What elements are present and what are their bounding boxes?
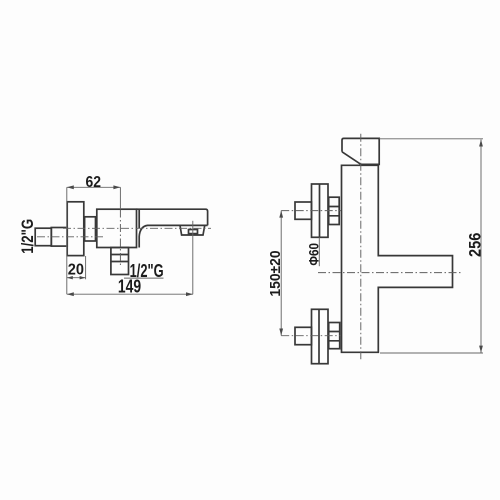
svg-text:149: 149 bbox=[118, 276, 141, 297]
svg-text:150±20: 150±20 bbox=[267, 250, 284, 296]
svg-text:256: 256 bbox=[465, 233, 484, 257]
svg-text:20: 20 bbox=[68, 261, 84, 278]
svg-text:Φ60: Φ60 bbox=[305, 243, 321, 266]
svg-text:62: 62 bbox=[85, 174, 101, 191]
svg-text:1/2"G: 1/2"G bbox=[18, 219, 37, 254]
